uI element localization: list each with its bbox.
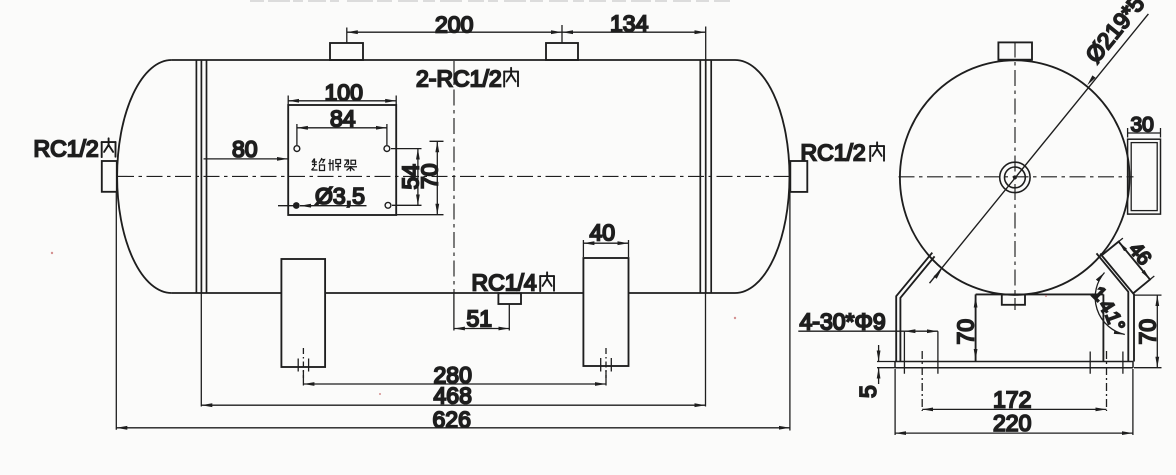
svg-text:5: 5 [855,385,881,398]
center dot [1013,175,1017,179]
center boss outer circle [1000,162,1030,192]
dim 51 extension lines [454,293,509,331]
dim 70 extension lines [396,141,443,214]
dim 46 corner overshoot ticks [1119,238,1155,279]
svg-text:Ø3,5: Ø3,5 [315,183,365,209]
center boss inner circle [1005,167,1026,188]
dim 30 slot line [904,330,938,332]
dim 40 extension lines [583,240,628,257]
svg-text:70: 70 [1135,319,1161,345]
svg-text:134: 134 [610,11,649,37]
dim 626 extension lines [116,193,790,431]
top port [998,42,1032,59]
dim 70 line [436,141,438,214]
svg-text:70: 70 [953,319,979,345]
diameter line dia219*5 [930,14,1149,283]
tank end circle [900,60,1130,295]
top port right [546,43,578,60]
dim 100 line [288,100,396,102]
dim 200 extension lines [347,25,562,43]
dim 5 extension lines [877,362,896,368]
dim 51 line [454,328,509,330]
slot end lines right [1090,352,1123,374]
svg-text:Ø219*5: Ø219*5 [1080,0,1149,68]
left head weld seam lines [196,60,206,293]
nameplate hole upper-left [294,146,300,152]
dim 54 extension lines [391,149,422,206]
support: inner saddle rectangle [976,294,1104,361]
dim 172 line [922,408,1106,410]
svg-text:172: 172 [993,387,1031,413]
dim 626 line [116,427,790,429]
leader line for hole dia 3,5 [278,205,367,207]
dim 200 line [347,31,562,33]
scan artifact: faint red specks [51,252,1047,395]
tank shell bottom line (broken at legs) [172,292,735,294]
nameplate hole upper-right [384,146,390,152]
svg-text:RC1/2: RC1/2 [34,136,99,162]
svg-text:46: 46 [1124,239,1155,270]
svg-text:84: 84 [330,106,356,132]
slot centerline left (dashed) [921,351,923,411]
dim 134 extension line [705,27,707,61]
svg-text:100: 100 [325,80,363,106]
dim 100 extension lines [288,96,396,106]
dim 280 extension lines [303,370,606,386]
dim 30 (bracket) line with end ticks [1128,128,1161,138]
scan artifact: cut-off text row at very top [250,0,730,2]
svg-text:40: 40 [590,220,616,246]
dim 70 right extension lines [1134,295,1162,368]
glyph 内 after RC1/2 (left end label) [102,138,116,157]
left end port RC1/2 [102,161,117,192]
horizontal centerline [118,175,790,177]
dim 54 line [417,149,419,206]
nameplate hole lower-left (filled, leader target) [293,202,300,209]
svg-text:220: 220 [993,410,1031,436]
nameplate hole lower-right [385,202,391,208]
svg-text:RC1/2: RC1/2 [801,140,866,166]
dim 220 line [895,432,1133,434]
nameplate bracket rectangle [288,105,396,215]
bottom port [1002,295,1025,305]
glyph 内 after 2-RC1/2 (top label) [504,68,518,87]
svg-text:51: 51 [467,306,493,332]
glyph 内 after RC1/2 (right end label) [870,142,884,161]
slot end extension lines left [904,331,938,374]
right head weld seam lines [700,60,711,293]
dim 84 line [297,127,387,129]
right support leg [583,258,628,366]
left leg bottom center mark [298,348,308,378]
side bracket plate 30x70 [1128,139,1161,214]
dim 280 line [303,383,606,385]
nameplate text 铭牌架 (simplified strokes) [312,158,358,171]
dim 70 right line [1156,295,1158,368]
svg-text:200: 200 [435,12,473,38]
tank shell top line [172,59,735,61]
dim 220 extension lines [895,369,1133,435]
dim 80 line [204,158,289,160]
horizontal centerline [899,176,1134,178]
angle 141 arc [1095,273,1125,335]
dim 5 line (arrows outside) [878,345,880,362]
right end port RC1/2 [790,161,807,192]
support: base plate [895,362,1133,368]
glyph 内 after RC1/4 (bottom label) [540,272,554,291]
slot centerline right (dashed) [1106,351,1108,411]
diameter line arrowheads [934,269,942,279]
dim 468 extension lines [201,294,705,407]
4-30 dia9 leader underline [798,330,904,332]
vertical centerline [1014,42,1016,311]
svg-text:626: 626 [433,407,471,433]
dim 40 line [583,242,628,244]
dim 84 extension lines [297,124,387,145]
bottom port RC1/4 [498,293,521,304]
vertical centerline [453,61,455,293]
svg-text:70: 70 [417,163,443,189]
svg-text:80: 80 [232,136,258,162]
right leg bottom center mark [601,348,612,378]
left support leg [281,259,325,367]
top port left [330,43,363,60]
svg-text:RC1/4: RC1/4 [472,270,537,296]
angled plate 46 on right leg [1102,242,1151,294]
dim 468 line [201,404,705,406]
dim 70 left (saddle height) [975,297,977,361]
right dished head [735,60,790,293]
dim 134 line [562,31,706,33]
dim 46 arrows on plate edge [1119,242,1150,280]
svg-text:468: 468 [434,383,472,409]
support: right leg [1100,254,1134,362]
left dished head [117,60,172,293]
svg-text:30: 30 [1131,114,1154,137]
support: left leg [896,253,932,362]
svg-text:4-30*Φ9: 4-30*Φ9 [800,309,886,335]
svg-text:2-RC1/2: 2-RC1/2 [416,66,502,92]
